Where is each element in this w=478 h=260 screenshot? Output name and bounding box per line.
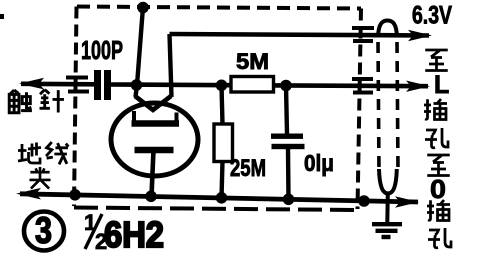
jack shield oval sides <box>378 42 379 171</box>
capacitor C1 100P <box>94 70 111 100</box>
label zhen (touch probe char 2) <box>40 90 64 113</box>
wire probe/grid rail right segment <box>110 85 428 87</box>
label di (ground clip char 1) <box>18 143 41 164</box>
L wire arrow <box>406 81 430 92</box>
wire heater rail 6.3V <box>170 34 430 36</box>
junction grid node <box>131 79 143 91</box>
label jia (ground clip char 3) <box>29 167 50 189</box>
feedthrough ticks left border at probe wire <box>66 78 89 92</box>
shield border right <box>358 9 362 210</box>
tube V1 envelope <box>111 103 198 176</box>
label chu (touch probe char 1) <box>9 90 32 113</box>
junction R2 bottom <box>216 192 228 204</box>
label kong L (to-L char 3) <box>425 128 448 148</box>
junction R1 right <box>280 80 292 92</box>
ground stem <box>385 194 390 223</box>
tube grid bracket <box>132 120 180 127</box>
svg-text:3: 3 <box>35 210 52 251</box>
tube cathode <box>135 147 174 154</box>
junction top border <box>137 2 149 14</box>
resistor R2 25M leads <box>222 85 223 124</box>
wire heater vertical <box>170 34 172 97</box>
capacitor C2 .01u leads <box>286 86 287 135</box>
junction cathode <box>145 191 157 203</box>
6.3V arrow <box>408 30 432 41</box>
label zhi 0 (to-0 char 1) <box>427 155 450 176</box>
jack shield U bottom <box>379 169 397 194</box>
svg-text:0lμ: 0lμ <box>304 150 334 176</box>
circled 3 <box>24 212 64 251</box>
wire ground rail <box>20 194 418 202</box>
label xian (ground clip char 2) <box>46 142 68 164</box>
shield border top <box>77 7 361 9</box>
svg-text:5M: 5M <box>236 49 269 74</box>
label zhi L (to-L char 1) <box>425 50 448 71</box>
svg-text:100P: 100P <box>81 35 123 65</box>
junction R1 left <box>216 80 228 92</box>
resistor R2 25M <box>214 124 233 162</box>
shield border bottom <box>74 208 358 211</box>
resistor R1 5M <box>231 77 274 93</box>
junction C2 bottom <box>283 194 295 206</box>
junction shield right <box>358 195 370 207</box>
jack shield oval top arc <box>378 21 397 38</box>
wire grid vertical from top <box>137 7 143 85</box>
feedthrough ticks right border at L wire <box>352 79 373 93</box>
probe arrow <box>19 78 44 90</box>
svg-text:25M: 25M <box>230 155 266 182</box>
junction shield left <box>69 189 81 201</box>
ground rail left arrow <box>16 188 41 200</box>
tube grid lead <box>136 85 138 97</box>
svg-text:6.3V: 6.3V <box>412 2 452 30</box>
label kong 0 (to-0 char 3) <box>428 228 451 248</box>
capacitor C2 plates <box>271 134 305 150</box>
svg-text:0: 0 <box>430 174 446 204</box>
stray mark <box>0 14 4 19</box>
ground symbol <box>372 224 402 237</box>
shield border left <box>74 7 77 207</box>
label cha L (to-L char 2) <box>424 99 447 120</box>
tube filament V <box>135 96 171 110</box>
ground rail right arrow <box>395 196 419 207</box>
svg-text:L: L <box>434 71 449 99</box>
feedthrough ticks right border at 6.3V wire <box>352 28 374 41</box>
label cha 0 (to-0 char 2) <box>427 200 450 221</box>
wire probe rail left segment <box>21 82 95 87</box>
svg-text:6H2: 6H2 <box>104 214 164 255</box>
